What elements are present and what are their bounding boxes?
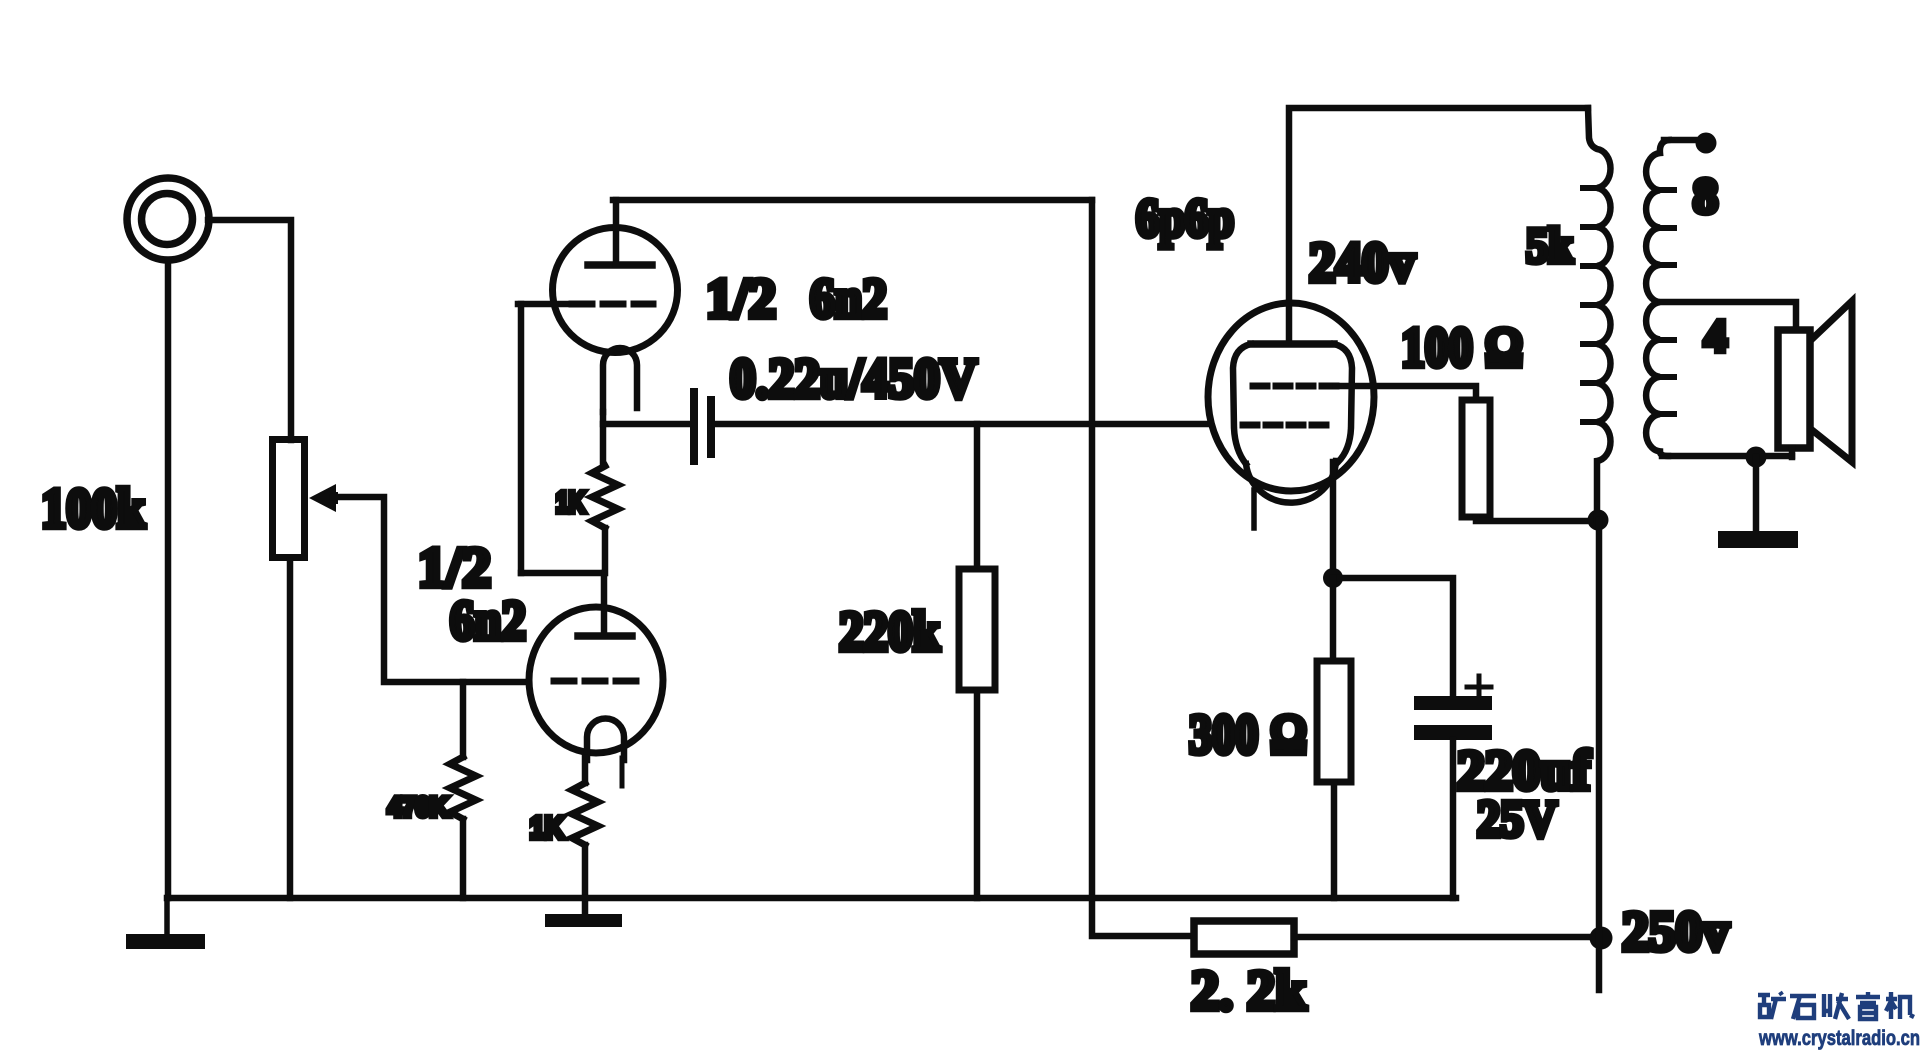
svg-text:100k: 100k — [41, 478, 146, 540]
ground bus — [167, 895, 1456, 902]
capacitor C2 bottom plate — [1414, 725, 1492, 740]
wire to speaker ground — [1753, 457, 1760, 532]
node 250v junction dot — [1590, 927, 1613, 950]
ground bar at speaker — [1718, 531, 1798, 548]
resistor R6 300ohm body — [1317, 661, 1351, 782]
V1b grid line solid part — [518, 301, 566, 308]
ground stub at input jack — [164, 898, 170, 935]
wire 2.2k to 250v node — [1294, 934, 1601, 941]
transformer T1 secondary coil — [1646, 140, 1669, 456]
V1b plate lead — [613, 200, 620, 265]
svg-text:8: 8 — [1693, 167, 1718, 223]
wire cathode node down to 300ohm — [1330, 578, 1337, 661]
transformer T1 primary coil 5k — [1588, 108, 1610, 520]
V2 plate top bar — [1251, 340, 1334, 348]
V1a plate bar — [578, 632, 632, 640]
V2 screen grid dashes — [1253, 383, 1336, 390]
svg-text:6n2: 6n2 — [450, 590, 526, 652]
secondary 8ohm terminal wire — [1664, 137, 1700, 144]
wire 250v feed line — [1596, 520, 1603, 990]
svg-text:1/2: 1/2 — [706, 268, 776, 330]
capacitor C1 right plate — [707, 396, 715, 458]
wire 220uf to bus end — [1450, 740, 1457, 898]
wire cathode node to 220uf — [1333, 578, 1453, 697]
ground bar below V1a cathode — [545, 914, 622, 927]
svg-text:470K: 470K — [388, 792, 448, 822]
wire wiper to lower triode grid — [333, 497, 529, 682]
V1b grid dashed part — [572, 301, 653, 308]
svg-text:0.22u/450V: 0.22u/450V — [730, 348, 977, 410]
primary cusp ticks — [1583, 188, 1596, 422]
svg-text:240v: 240v — [1309, 232, 1415, 294]
V1a grid dashed line — [554, 678, 638, 685]
node 8ohm terminal dot — [1696, 133, 1717, 154]
triode V1a lower 1/2 6n2 envelope — [529, 607, 663, 753]
V2 plate right side — [1334, 344, 1352, 462]
wire down to 470k — [460, 682, 467, 757]
capacitor C2 220uf plus sign — [1467, 676, 1491, 698]
speaker LS1 driver body — [1778, 330, 1810, 448]
resistor R3 1K zigzag (lower cathode) — [572, 783, 598, 845]
node primary bottom dot — [1588, 510, 1609, 531]
node V2 cathode junction dot — [1323, 568, 1343, 588]
V2 control grid dashes — [1243, 422, 1331, 429]
wire V1a plate jog to upper grid line — [521, 570, 604, 577]
svg-text:25V: 25V — [1477, 791, 1557, 848]
svg-text:4: 4 — [1704, 310, 1727, 361]
resistor R4 220k body — [959, 569, 995, 690]
wire 300ohm to bus — [1331, 782, 1338, 898]
svg-text:300 Ω: 300 Ω — [1189, 704, 1307, 766]
wire 1K down to jog — [602, 528, 609, 573]
node speaker return dot — [1746, 447, 1767, 468]
potentiometer bottom lead — [287, 561, 294, 898]
wire cathode node to coupling cap — [603, 421, 691, 428]
wire B+ dropper vertical — [1092, 200, 1194, 936]
V1b plate bar — [588, 261, 652, 269]
svg-text:220k: 220k — [839, 601, 941, 663]
input jack J1 outer ring — [127, 178, 209, 260]
secondary 4ohm tap wire — [1661, 302, 1796, 330]
wire 220k to bus — [974, 690, 981, 898]
wire 470k to bus — [460, 819, 467, 898]
wire jack sleeve down to ground bus — [165, 260, 172, 898]
wire 1K to ground — [582, 845, 589, 916]
resistor R5 100ohm body — [1462, 400, 1490, 517]
V2 plate left side — [1233, 344, 1251, 464]
svg-text:6p6p: 6p6p — [1136, 188, 1234, 248]
wire B+ top rail of SRPP — [613, 197, 1092, 204]
resistor R1 1K zigzag (SRPP) — [592, 466, 618, 528]
V2 cathode smile — [1246, 461, 1336, 503]
input jack J1 inner ring — [142, 194, 193, 245]
capacitor C1 0.22u left plate — [690, 388, 698, 465]
V1a cathode arch — [587, 719, 624, 760]
svg-text:www.crystalradio.cn: www.crystalradio.cn — [1758, 1027, 1920, 1050]
resistor R7 2.2k body — [1194, 921, 1294, 954]
secondary bottom wire to speaker — [1662, 453, 1792, 460]
capacitor C2 top plate — [1414, 696, 1492, 710]
V1b cathode lead down to node — [600, 412, 607, 466]
pentode V2 6p6p envelope — [1208, 303, 1374, 491]
wire jack tip to pot top — [208, 220, 291, 440]
speaker bottom stub — [1789, 448, 1796, 457]
secondary cusp ticks — [1662, 190, 1674, 414]
svg-text:1K: 1K — [556, 487, 585, 519]
wire V2 cathode down — [1330, 462, 1337, 570]
wire 6p6p plate to transformer top — [1289, 108, 1588, 343]
watermark CJK 矿石收音机 — [1758, 992, 1914, 1019]
wire upper grid vertical — [518, 304, 525, 573]
svg-text:250v: 250v — [1622, 901, 1729, 963]
V1a plate lead up — [601, 573, 608, 636]
triode V1b upper 1/2 6n2 envelope — [553, 228, 678, 353]
svg-text:2. 2k: 2. 2k — [1191, 960, 1307, 1022]
potentiometer wiper arrow — [309, 484, 338, 512]
svg-text:6n2: 6n2 — [810, 268, 887, 330]
wire 100ohm bottom to primary bottom — [1476, 517, 1597, 521]
V1a cathode lead to 1K — [582, 758, 589, 783]
svg-text:1K: 1K — [530, 810, 565, 845]
wire coupling cap to 6p6p grid — [715, 421, 1210, 428]
speaker cone — [1812, 301, 1852, 462]
wire down to 220k — [974, 424, 981, 569]
wire screen to 100ohm — [1336, 386, 1476, 400]
svg-text:5k: 5k — [1526, 217, 1573, 273]
ground bar at input jack — [126, 934, 205, 949]
potentiometer VR1 100k body — [273, 440, 305, 558]
svg-text:100 Ω: 100 Ω — [1401, 317, 1523, 379]
V2 heater stub — [1251, 490, 1257, 528]
V1a cathode right stub — [620, 758, 625, 786]
V1b cathode arch — [603, 348, 637, 412]
resistor R2 470K zigzag — [450, 757, 476, 819]
